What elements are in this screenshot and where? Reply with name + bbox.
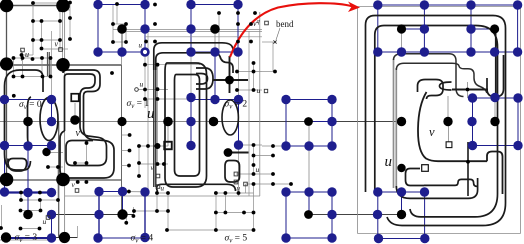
blue node N8: [117, 47, 126, 56]
stub y165: [122, 165, 130, 167]
blue node N31: [23, 188, 32, 197]
blue node N1: [93, 0, 102, 9]
wire y163: [75, 162, 87, 164]
panel blue x471: [470, 5, 472, 52]
curve sigma1 top hook a: [154, 43, 238, 70]
wire x113: [112, 4, 114, 42]
dot d36: [156, 63, 160, 67]
panel curve tab A: [394, 54, 464, 97]
wire y64.7: [145, 64, 200, 66]
wire x139: [138, 146, 140, 176]
dot d101: [68, 16, 72, 20]
dot d70: [38, 198, 42, 202]
dot d85: [155, 191, 159, 195]
panel blue node Q9: [420, 47, 429, 56]
dot d58: [252, 154, 256, 158]
panel blue node Q13: [468, 93, 477, 102]
wire y212: [216, 212, 254, 214]
blue node N25: [186, 141, 195, 150]
blue node N14: [186, 93, 195, 102]
svg-text:σν = 3: σν = 3: [15, 233, 38, 244]
big node B8: [59, 232, 70, 243]
square marker d: [244, 182, 248, 186]
wire x253.5c: [253, 184, 255, 230]
square marker big a: [71, 94, 79, 102]
panel blue node Q7: [373, 47, 382, 56]
curve sigma2 cup inner: [196, 74, 208, 85]
square marker i: [46, 216, 50, 220]
svg-text:u: u: [257, 86, 261, 95]
panel blue node Q3: [466, 0, 475, 9]
dot d23: [249, 40, 253, 44]
frame bottom y196: [65, 195, 260, 197]
dot d106: [127, 190, 131, 194]
wire x238.5: [238, 52, 240, 100]
wire x75: [74, 103, 76, 120]
blue wire x332b: [331, 192, 333, 238]
wire y90: [237, 89, 262, 91]
blue wire y4.5b: [191, 4, 238, 6]
dot d65: [252, 172, 256, 176]
panel blue node Q19: [373, 187, 382, 196]
wire y36.8: [145, 36, 262, 38]
blue node N2: [140, 0, 149, 9]
blue node N23: [23, 141, 32, 150]
dot d46: [143, 97, 147, 101]
wire x21: [20, 193, 22, 201]
blue wire x145: [144, 5, 146, 53]
blue node N26: [234, 140, 243, 149]
panel curve vertical x468: [467, 142, 469, 196]
dot d25: [20, 53, 24, 57]
curve sigma2 cup outer: [196, 68, 213, 89]
dot d14: [249, 22, 253, 26]
wire y99g: [145, 98, 191, 100]
wire x215: [214, 29, 216, 52]
wire x86.5: [86, 143, 88, 163]
panel node P7: [397, 210, 406, 219]
blue node N6: [186, 24, 195, 33]
blue node N28: [304, 141, 313, 150]
dot d60: [46, 165, 50, 169]
panel blue node Q16: [467, 117, 476, 126]
dot d16: [40, 38, 44, 42]
panel curve tab B: [396, 63, 487, 93]
wire y146c: [262, 145, 286, 147]
wire x225.5: [225, 193, 227, 213]
wire x41.5: [41, 21, 43, 49]
wire x21.5: [21, 50, 23, 61]
panel blue x424.6: [424, 192, 426, 239]
panel blue x401.5: [401, 192, 403, 215]
blue node N33: [94, 187, 103, 196]
wire x253.5: [253, 145, 255, 174]
dot d52: [271, 144, 275, 148]
panel curve big paren: [418, 92, 487, 161]
wire x157.5: [157, 64, 159, 164]
dot d67: [19, 191, 23, 195]
dot d62: [137, 161, 141, 165]
wire y65 big: [0, 64, 122, 66]
wire y145b: [239, 144, 263, 146]
blue wire y99.5a: [5, 99, 52, 101]
dot d42: [143, 88, 147, 92]
dot d4: [217, 11, 221, 15]
blue node N46: [327, 233, 336, 242]
wire y146: [139, 145, 168, 147]
svg-text:v: v: [55, 40, 59, 49]
dot d80: [155, 209, 159, 213]
blue wire x122.5: [122, 192, 124, 215]
blue node N32: [47, 188, 56, 197]
panel blue x518: [517, 98, 519, 146]
wire x77.5: [77, 226, 79, 238]
dot d66: [271, 172, 275, 176]
stub y135: [122, 134, 130, 136]
dot d40: [273, 70, 277, 74]
blue wire x191: [190, 5, 192, 53]
dot d64: [252, 163, 256, 167]
blue wire y52b: [191, 51, 238, 53]
wire y58: [14, 57, 51, 59]
blue wire y99.5c: [286, 99, 332, 101]
wire y164: [139, 163, 168, 165]
wire y200: [21, 199, 58, 201]
blue node N19: [47, 117, 56, 126]
wire y174: [236, 173, 273, 175]
blue node N9: [186, 47, 195, 56]
node M15: [155, 143, 161, 149]
wire x148: [147, 31, 149, 196]
wire x253.5a: [253, 63, 255, 90]
wire x126.3: [125, 215, 127, 224]
dot d88: [224, 211, 228, 215]
blue wire x145b: [144, 192, 146, 238]
blue wire y121.5: [309, 121, 332, 123]
square marker h: [156, 185, 160, 189]
dot d31: [12, 75, 16, 79]
dot d24: [58, 8, 62, 12]
dot d77: [19, 209, 23, 213]
dot d32: [21, 75, 25, 79]
bend leader line: [276, 28, 280, 40]
panel blue node Q15: [513, 93, 522, 102]
wire x219: [218, 13, 220, 56]
node M6: [209, 117, 219, 127]
blue node N30: [0, 187, 9, 196]
dot d11: [124, 22, 128, 26]
dot d92: [132, 214, 136, 218]
dot d96: [165, 228, 169, 232]
wire y230: [167, 229, 254, 231]
wire y210: [21, 210, 41, 212]
curve sigma1 top hook b: [156, 53, 233, 73]
blue wire x4.5: [4, 100, 6, 193]
dot d78: [39, 209, 43, 213]
wire x42: [41, 58, 43, 77]
wire y145.5g: [0, 145, 28, 147]
dot d43: [156, 87, 160, 91]
blue node N42: [47, 233, 56, 242]
wire x40.5: [40, 200, 42, 211]
wire y76: [14, 76, 51, 78]
panel curve tabB vertical gray: [395, 68, 397, 188]
wire y214.5 to panel: [309, 214, 402, 216]
square marker bend: [265, 21, 269, 25]
node M1: [117, 24, 127, 34]
dot d97: [214, 228, 218, 232]
wire x51.5: [51, 31, 53, 99]
dot d15: [31, 38, 35, 42]
svg-text:v: v: [429, 125, 435, 139]
panel wire x448: [447, 96, 449, 122]
wire x60: [59, 10, 61, 49]
panel frame right: [520, 7, 522, 234]
blue node N21: [327, 117, 336, 126]
blue node N43: [93, 233, 102, 242]
red arrowhead: [348, 2, 360, 13]
panel blue node Q23: [374, 234, 383, 243]
wire long y29.5: [113, 29, 262, 31]
blue wire y191.5: [99, 191, 123, 193]
blue wire x98: [97, 5, 99, 53]
dot d37: [235, 70, 239, 74]
blue node N39: [47, 210, 56, 219]
curve sigma0 blob spiral outer: [60, 70, 114, 178]
node M8: [70, 115, 80, 125]
dot d74: [271, 182, 275, 186]
dot d98: [252, 228, 256, 232]
wire x47.5 dark: [47, 52, 49, 76]
blue node N44: [140, 233, 149, 242]
wire y193: [216, 192, 254, 194]
panel curve spiral mid: [375, 26, 498, 217]
dot d44: [235, 88, 239, 92]
dot d34: [49, 75, 53, 79]
blue node N16: [234, 95, 243, 104]
blue wire y238 thick: [6, 237, 52, 239]
dot d41: [12, 94, 16, 98]
x marker bend point: [273, 40, 276, 43]
panel blue y145.5: [473, 145, 519, 147]
curve sigma2 oval: [222, 100, 238, 135]
panel curve tab C: [424, 179, 477, 186]
curve sigma0 inner paren: [28, 97, 32, 144]
dot d95: [38, 227, 42, 231]
dot d56: [162, 162, 166, 166]
panel blue node Q20: [397, 187, 406, 196]
blue wire x28: [27, 122, 29, 215]
dot d51: [146, 144, 150, 148]
blue wire x286b: [285, 192, 287, 238]
blue node N45: [281, 233, 290, 242]
blue node N13: [47, 95, 56, 104]
panel blue node Q4: [513, 0, 522, 9]
wire y121.5 to panel: [214, 121, 402, 123]
svg-text:bend: bend: [276, 19, 294, 29]
panel blue y192: [378, 191, 425, 193]
panel curve stub: [452, 89, 488, 91]
panel blue node Q17: [468, 141, 477, 150]
node M7: [225, 76, 234, 85]
wire y55: [22, 54, 34, 56]
panel curve claw: [418, 80, 444, 100]
svg-text:σν = 1: σν = 1: [127, 99, 150, 110]
blue node N7: [93, 47, 102, 56]
dot d75: [289, 182, 293, 186]
blue wire x286: [285, 100, 287, 147]
panel curve tabA vertical gray: [393, 59, 395, 188]
panel wire x448b: [448, 126, 450, 142]
svg-text:σν = 2: σν = 2: [225, 100, 248, 111]
panel blue x472.5: [472, 98, 474, 146]
blue node N35: [140, 187, 149, 196]
curve sigma2 bottom rect: [225, 161, 240, 183]
wire x62.6: [62, 6, 64, 65]
blue wire x332: [331, 100, 333, 147]
panel square u: [422, 165, 429, 172]
svg-text:v: v: [76, 128, 81, 139]
blue wire y238b: [286, 237, 332, 239]
blue wire y4.5a: [98, 4, 145, 6]
blue node N38: [327, 187, 336, 196]
dot d39: [252, 70, 256, 74]
dot d27: [12, 56, 16, 60]
dot d26: [31, 57, 35, 61]
dot d86: [166, 191, 170, 195]
dot d38: [252, 61, 256, 65]
panel curve cap: [487, 152, 503, 195]
dot d20: [144, 40, 148, 44]
wire x117: [116, 4, 118, 24]
big node B7: [1, 232, 11, 242]
dot d53: [85, 161, 89, 165]
svg-text:u: u: [147, 106, 155, 122]
panel blue node Q5: [420, 24, 429, 33]
blue wire y145.5: [5, 145, 52, 147]
panel blue x517.6: [517, 5, 519, 52]
curve sigma2 stub2: [228, 152, 249, 154]
wire y167: [48, 166, 63, 168]
wire x238g: [237, 13, 239, 24]
panel wire x495: [494, 98, 496, 122]
wire y71.5b: [262, 71, 275, 73]
dot d2: [115, 2, 119, 6]
wire x50.5: [50, 58, 52, 77]
dot d59: [271, 154, 275, 158]
blue wire x238: [237, 5, 239, 53]
panel blue node Q24: [420, 234, 429, 243]
dot d17: [58, 38, 62, 42]
blue node N4: [233, 0, 242, 9]
square marker e: [234, 172, 238, 176]
frame right x259.8: [259, 12, 261, 196]
dot d63: [137, 174, 141, 178]
curve sigma0 outer C: [5, 70, 31, 170]
svg-text:σν = 0: σν = 0: [19, 100, 42, 111]
blue wire x191b: [190, 98, 192, 146]
wire y49: [42, 48, 69, 50]
wire y193b: [157, 192, 168, 194]
panel blue node Q12: [513, 47, 522, 56]
blue wire x238.5: [238, 100, 240, 146]
wire x309 gray: [308, 122, 310, 193]
square marker g: [156, 174, 160, 178]
blue node N36: [281, 187, 290, 196]
node M4: [117, 117, 126, 126]
wire y184: [246, 183, 292, 185]
dot d35: [143, 63, 147, 67]
dot d104: [128, 149, 132, 153]
panel frame bottom: [358, 233, 521, 235]
dot d89: [242, 211, 246, 215]
dot d28: [21, 56, 25, 60]
blue wire y52a: [98, 51, 145, 53]
blue node N24: [47, 141, 56, 150]
dot d12: [153, 22, 157, 26]
blue wire x309b: [308, 192, 310, 215]
wire x58.7 dark: [58, 121, 60, 237]
dot d19: [124, 40, 128, 44]
square marker big b: [164, 142, 172, 150]
wire x121.5: [121, 65, 123, 215]
dot d7: [31, 19, 35, 23]
dot d30: [49, 56, 53, 60]
square marker a: [21, 48, 25, 52]
curve sigma1 inner rect: [175, 75, 200, 177]
panel blue y5: [378, 4, 518, 6]
svg-text:u: u: [237, 185, 241, 193]
svg-text:u: u: [140, 80, 144, 89]
wire x245.5: [245, 184, 247, 193]
panel node P6: [397, 164, 405, 172]
dot d6: [253, 11, 257, 15]
dot d10: [111, 22, 115, 26]
blue node N11: [233, 47, 242, 56]
dot d99: [466, 88, 470, 92]
panel frame left: [357, 7, 359, 234]
blue wire y238a: [99, 237, 145, 239]
blue node N20: [186, 117, 195, 126]
blue wire y146: [286, 145, 332, 147]
dot d79: [132, 209, 136, 213]
svg-text:u: u: [385, 154, 393, 170]
wire x6.5: [6, 6, 8, 181]
wire y155: [254, 155, 274, 157]
blue node N34: [118, 187, 127, 196]
dot d90: [252, 211, 256, 215]
blue node N5: [140, 24, 149, 33]
square marker j: [75, 189, 79, 193]
blue node N18: [327, 95, 336, 104]
panel node P4: [443, 117, 452, 126]
dot d105: [127, 164, 131, 168]
dot d5: [236, 11, 240, 15]
panel blue node Q8: [397, 47, 406, 56]
curve sigma1 vertical b: [155, 59, 157, 187]
node M14: [304, 210, 313, 219]
wire x121.5a: [121, 52, 123, 65]
panel blue node Q21: [420, 187, 429, 196]
dot d100: [466, 160, 470, 164]
wire x126: [125, 24, 127, 42]
dot d68: [38, 191, 42, 195]
wire top edge big nodes: [7, 5, 64, 7]
panel node P3: [397, 117, 406, 126]
wire x49.3 dark: [48, 52, 50, 76]
wire x191: [190, 52, 192, 98]
wire x238.5b: [238, 145, 240, 196]
